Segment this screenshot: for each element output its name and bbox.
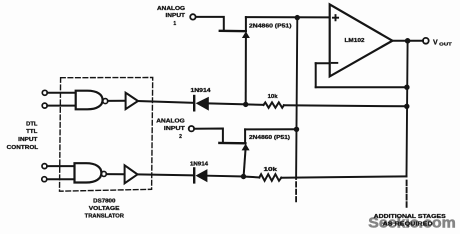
- node Q2 gate junction: [241, 174, 246, 179]
- wire R2 to output bus corner: [281, 176, 406, 177]
- node op-amp output: [405, 38, 411, 44]
- wire gate node to R2: [244, 176, 260, 179]
- buffer B2: [125, 165, 138, 183]
- dashed continuation of drain bus: [295, 182, 297, 204]
- svg-text:DS7800: DS7800: [93, 198, 115, 204]
- diode D1 1N914 body: [196, 97, 209, 111]
- label ANALOG INPUT 1: [157, 6, 186, 27]
- node R1 to output bus: [404, 104, 409, 109]
- resistor R1 10k: [264, 102, 284, 107]
- svg-text:CONTROL: CONTROL: [7, 145, 39, 151]
- wire output bus vertical: [407, 41, 408, 177]
- diode D2 1N914 cathode bar: [193, 168, 195, 182]
- wire gate node to R1: [246, 103, 264, 106]
- wire R1 to output bus: [284, 105, 407, 106]
- label DS7800 VOLTAGE TRANSLATOR: [85, 198, 125, 219]
- svg-text:INPUT: INPUT: [18, 137, 37, 143]
- wire D2 to gate node: [207, 175, 243, 178]
- diode D2 1N914 body: [196, 169, 208, 182]
- op-amp - sign: [332, 62, 338, 64]
- wire drain bus vertical (to additional stages): [296, 18, 297, 179]
- input terminal B of gate G1: [42, 103, 47, 108]
- svg-text:VOLTAGE: VOLTAGE: [89, 206, 120, 212]
- svg-text:10k: 10k: [268, 94, 278, 100]
- node Q1 gate junction: [243, 102, 248, 107]
- svg-text:1N914: 1N914: [190, 161, 208, 167]
- NAND gate G2 output bubble: [101, 171, 106, 176]
- input terminal B of gate G2: [42, 177, 47, 182]
- svg-text:INPUT: INPUT: [166, 13, 187, 19]
- svg-text:DTL: DTL: [26, 121, 37, 127]
- svg-text:2N4860 (P51): 2N4860 (P51): [249, 23, 292, 29]
- label ANALOG INPUT 2: [156, 118, 186, 139]
- NAND gate G1 output bubble: [103, 99, 108, 104]
- node drain bus / op-amp input junction: [295, 15, 300, 20]
- op-amp + sign: [333, 15, 338, 20]
- node Q2 drain to bus: [294, 127, 299, 132]
- wire G2 input B: [47, 178, 75, 180]
- svg-text:V: V: [433, 39, 438, 46]
- dashed continuation of output bus: [406, 181, 408, 208]
- wire op-amp output: [392, 40, 423, 42]
- input terminal A of gate G1: [42, 90, 47, 95]
- resistor R2 10k: [259, 174, 281, 181]
- wire G2 bubble to buffer B2: [106, 173, 124, 175]
- JFET Q2 2N4860 channel bar: [219, 142, 245, 145]
- DS7800 dashed package box: [60, 78, 153, 192]
- analog input 1 terminal: [190, 14, 195, 19]
- wire buffer2 output to diode D2: [138, 174, 194, 175]
- input terminal A of gate G2: [42, 164, 47, 169]
- op-amp U1 LM102 triangle: [330, 4, 393, 76]
- diode D1 1N914 cathode bar: [193, 96, 195, 110]
- Vout terminal: [423, 38, 429, 44]
- wire G1 input B: [47, 105, 75, 107]
- svg-text:1: 1: [173, 21, 176, 27]
- wire feedback vertical: [315, 63, 317, 87]
- JFET Q2 drain lead: [244, 129, 246, 143]
- JFET Q1 gate stem wire: [245, 37, 247, 104]
- NAND gate G1: [76, 91, 103, 110]
- svg-text:1N914: 1N914: [191, 88, 211, 94]
- svg-text:INPUT: INPUT: [164, 126, 186, 132]
- svg-text:2N4860 (P51): 2N4860 (P51): [249, 135, 290, 141]
- label ADDITIONAL STAGES AS REQUIRED: [374, 214, 447, 227]
- NAND gate G2: [75, 163, 102, 182]
- analog input 2 terminal: [189, 126, 194, 131]
- JFET Q2 gate stem wire: [244, 150, 246, 177]
- label DTL TTL INPUT CONTROL: [7, 121, 39, 151]
- buffer B1: [126, 93, 138, 109]
- node feedback tap on output bus: [404, 85, 409, 90]
- wire G2 input A: [47, 165, 75, 167]
- JFET Q2 gate arrow: [242, 144, 250, 151]
- JFET Q1 gate arrow: [242, 31, 250, 38]
- svg-text:LM102: LM102: [345, 38, 365, 44]
- wire Q1 drain to op-amp + input: [246, 16, 330, 18]
- label VOUT: [433, 39, 452, 47]
- wire input2 to JFET Q2 source: [194, 129, 223, 143]
- wire Q2 drain to bus node: [245, 128, 296, 130]
- svg-text:ADDITIONAL STAGES: ADDITIONAL STAGES: [374, 214, 447, 220]
- svg-text:TRANSLATOR: TRANSLATOR: [85, 213, 125, 219]
- svg-text:OUT: OUT: [439, 42, 452, 48]
- wire G1 bubble to buffer B1: [108, 100, 125, 102]
- wire feedback horizontal: [316, 86, 407, 88]
- svg-text:TTL: TTL: [26, 129, 37, 135]
- wire buffer1 output to diode D1: [138, 101, 194, 103]
- wire G1 input A: [47, 92, 75, 94]
- wire D1 to gate node: [209, 103, 246, 104]
- wire input1 to JFET source: [196, 17, 224, 30]
- svg-text:ANALOG: ANALOG: [157, 6, 185, 12]
- svg-text:ANALOG: ANALOG: [156, 118, 185, 124]
- svg-text:2: 2: [179, 134, 182, 140]
- wire - input: [316, 62, 330, 64]
- svg-text:AS REQUIRED: AS REQUIRED: [383, 221, 433, 227]
- JFET Q1 drain lead: [245, 17, 247, 31]
- JFET Q1 2N4860 channel bar: [220, 30, 246, 33]
- svg-text:10k: 10k: [264, 167, 278, 173]
